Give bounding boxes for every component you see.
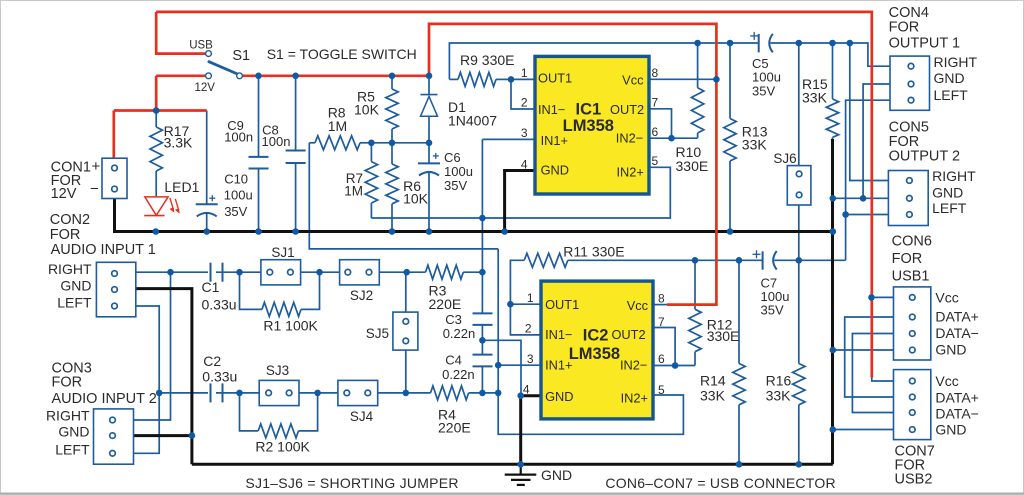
svg-text:DATA+: DATA+ [935, 390, 978, 406]
svg-text:IN2+: IN2+ [621, 390, 648, 405]
ground bus upper [115, 199, 833, 232]
svg-text:330E: 330E [676, 158, 709, 174]
wire CON3 GND stub [134, 434, 192, 437]
svg-text:R14: R14 [700, 372, 726, 388]
wire IC2 pin1/pin2 node [510, 304, 541, 335]
svg-text:6: 6 [658, 352, 665, 366]
svg-text:R2 100K: R2 100K [255, 439, 310, 455]
ground symbol [505, 464, 537, 485]
svg-text:35V: 35V [224, 204, 247, 219]
wire IC1 pin8 Vcc stub [649, 78, 716, 80]
resistor R7 1M [365, 143, 377, 218]
connector CON6 USB1 [894, 287, 931, 360]
svg-text:330E: 330E [707, 328, 740, 344]
svg-text:3: 3 [527, 352, 534, 366]
svg-text:FOR: FOR [889, 20, 920, 36]
svg-text:100n: 100n [224, 130, 253, 145]
wire USB1 Vcc stub [872, 296, 894, 298]
resistor R9 330E [449, 72, 511, 86]
capacitor C3 0.22n [473, 313, 493, 325]
LED LED1 [144, 197, 180, 216]
svg-text:100n: 100n [262, 134, 291, 149]
svg-text:CON2: CON2 [50, 212, 90, 228]
ground bus lower [192, 463, 833, 466]
svg-text:USB2: USB2 [895, 472, 933, 488]
svg-text:LEFT: LEFT [57, 295, 92, 311]
svg-text:SJ6: SJ6 [773, 151, 796, 166]
wire CON4 LEFT / CON5 LEFT riser [846, 100, 890, 260]
wire R2 leads [240, 393, 318, 431]
svg-text:7: 7 [658, 315, 665, 329]
svg-text:100u: 100u [444, 164, 473, 179]
wire bias node line R8-R5-C6 [371, 142, 429, 144]
svg-text:DATA−: DATA− [935, 325, 978, 341]
svg-text:LED1: LED1 [164, 179, 199, 195]
wire IC1 pin3 / bias column [482, 139, 535, 393]
svg-text:1M: 1M [328, 118, 347, 134]
svg-text:GND: GND [58, 424, 89, 440]
svg-text:100u: 100u [224, 188, 253, 203]
svg-text:IC1: IC1 [576, 100, 602, 118]
svg-text:10K: 10K [354, 102, 380, 118]
resistor R3 220E [426, 265, 464, 279]
svg-text:OUTPUT 1: OUTPUT 1 [889, 35, 960, 51]
diode D1 1N4007 [421, 76, 438, 143]
svg-text:2: 2 [521, 96, 528, 110]
wire output-1 line from R9/R10 node to CON4 [449, 43, 890, 79]
capacitor C5 100u electrolytic [750, 32, 773, 53]
svg-text:DATA+: DATA+ [935, 309, 978, 325]
svg-text:R9 330E: R9 330E [460, 52, 514, 68]
wire R7 node to IC1 pin5 detour [371, 167, 670, 218]
wire R8 bias line to IC2 IN1+ [309, 143, 498, 249]
svg-text:LEFT: LEFT [934, 87, 969, 103]
svg-text:35V: 35V [752, 84, 775, 99]
svg-text:SJ4: SJ4 [350, 409, 374, 424]
svg-text:C6: C6 [444, 150, 461, 165]
wire IC1 pin1/pin2 node [511, 79, 535, 109]
wire switched power rail [242, 74, 429, 77]
wire CON4 GND [863, 84, 890, 198]
svg-text:12V: 12V [195, 82, 216, 94]
resistor R12 330E [689, 260, 701, 365]
wire IC1 pin4 GND [505, 171, 535, 232]
svg-text:0.22n: 0.22n [442, 367, 475, 382]
wire USB switch feed [156, 12, 206, 54]
svg-text:C2: C2 [203, 353, 221, 369]
connector CON2 audio input 1 [96, 262, 135, 317]
resistor R11 330E [524, 253, 568, 267]
svg-text:100u: 100u [752, 70, 781, 85]
svg-text:OUT1: OUT1 [545, 297, 579, 312]
svg-text:−: − [90, 181, 99, 198]
wire USB1-USB2 DATA+ [845, 317, 894, 397]
jumper SJ6 [787, 166, 811, 205]
svg-text:IN1+: IN1+ [541, 133, 568, 148]
resistor R10 330E [691, 43, 703, 138]
svg-text:GND: GND [545, 389, 573, 404]
capacitor C9 100n [249, 76, 269, 232]
svg-text:SJ1–SJ6 = SHORTING JUMPER: SJ1–SJ6 = SHORTING JUMPER [245, 475, 458, 491]
svg-text:6: 6 [652, 125, 659, 139]
connector CON7 USB2 [894, 370, 931, 440]
svg-text:FOR: FOR [50, 227, 81, 243]
wire audio input path1 [136, 271, 483, 273]
connector CON1 12V input [102, 158, 127, 198]
svg-text:OUT2: OUT2 [611, 327, 645, 342]
svg-text:SJ2: SJ2 [350, 288, 373, 303]
svg-text:R1 100K: R1 100K [263, 318, 318, 334]
svg-text:CON6–CON7 = USB CONNECTOR: CON6–CON7 = USB CONNECTOR [605, 475, 835, 491]
resistor R13 33K [724, 43, 736, 232]
svg-text:SJ5: SJ5 [366, 326, 389, 341]
IC1 pin numbers [521, 66, 659, 172]
svg-text:IN1+: IN1+ [545, 358, 572, 373]
wire USB2 GND stub [833, 429, 894, 431]
svg-text:+: + [92, 158, 101, 175]
svg-text:2: 2 [525, 322, 532, 336]
wire inner power feed to IC Vcc pins [429, 24, 716, 305]
svg-text:220E: 220E [438, 419, 471, 435]
resistor R14 33K [733, 260, 745, 464]
wire CON3 RIGHT riser [134, 272, 171, 420]
svg-text:220E: 220E [429, 296, 462, 312]
svg-text:S1: S1 [232, 48, 250, 64]
wire CON5 RIGHT to output-1 line [850, 43, 889, 181]
svg-text:Vcc: Vcc [935, 373, 958, 389]
wire SJ5 links [405, 272, 407, 393]
svg-text:LEFT: LEFT [932, 200, 967, 216]
svg-text:33K: 33K [700, 388, 726, 404]
svg-text:1: 1 [527, 291, 534, 305]
capacitor C1 0.33u [211, 263, 223, 282]
svg-text:Vcc: Vcc [935, 289, 958, 305]
resistor R8 1M [309, 136, 371, 150]
svg-text:1M: 1M [344, 183, 363, 198]
wire IC2 pin8 stub [653, 304, 669, 306]
connector CON5 output 2 [888, 171, 928, 226]
svg-text:GND: GND [935, 342, 966, 358]
svg-text:R11 330E: R11 330E [563, 244, 624, 260]
svg-text:OUTPUT 2: OUTPUT 2 [889, 149, 960, 165]
svg-text:FOR: FOR [892, 251, 923, 267]
svg-text:GND: GND [935, 422, 966, 438]
svg-text:RIGHT: RIGHT [932, 168, 976, 184]
svg-text:LM358: LM358 [563, 117, 614, 135]
wire CON5 GND [833, 197, 889, 199]
IC2 pin numbers [523, 291, 665, 397]
svg-text:R16: R16 [766, 372, 792, 388]
svg-text:LEFT: LEFT [55, 442, 90, 458]
svg-text:RIGHT: RIGHT [46, 408, 90, 424]
wire CON1 + to LED/C10 branch [114, 111, 207, 159]
svg-text:GND: GND [541, 163, 569, 178]
svg-text:S1 = TOGGLE SWITCH: S1 = TOGGLE SWITCH [267, 46, 417, 62]
svg-text:OUT2: OUT2 [610, 102, 644, 117]
svg-text:0.33u: 0.33u [202, 296, 237, 312]
wire CON2 GND to lower bus [136, 289, 192, 465]
svg-text:SJ3: SJ3 [266, 363, 289, 378]
svg-text:Vcc: Vcc [622, 73, 644, 88]
svg-text:C1: C1 [202, 279, 220, 295]
resistor R6 10K [386, 143, 398, 232]
wire IC2 pin7-pin6 link and R12 bottom [653, 328, 695, 366]
svg-text:35V: 35V [761, 303, 784, 318]
resistor R15 33K [826, 43, 838, 140]
svg-text:OUT1: OUT1 [538, 71, 572, 86]
wire IC2 pin4 GND [521, 396, 541, 465]
svg-text:33K: 33K [802, 90, 828, 106]
svg-text:IN1−: IN1− [545, 327, 572, 342]
svg-text:7: 7 [652, 96, 659, 110]
svg-text:5: 5 [658, 383, 665, 397]
wire IC2 pin5 detour [498, 393, 683, 434]
capacitor C8 100n [286, 76, 306, 232]
wire SJ6 links and R16 column [798, 43, 800, 464]
svg-text:GND: GND [934, 70, 965, 86]
svg-text:10K: 10K [403, 191, 429, 207]
op-amp IC2 LM358 [541, 281, 653, 419]
wire 12V power rail top [156, 12, 872, 378]
svg-text:4: 4 [521, 158, 528, 172]
wire IC1 pin7-pin6 link and R10 bottom [649, 109, 698, 138]
svg-text:IN1−: IN1− [538, 102, 565, 117]
svg-text:IN2+: IN2+ [617, 165, 644, 180]
svg-text:C10: C10 [224, 171, 248, 186]
svg-text:1: 1 [521, 66, 528, 80]
svg-text:0.22n: 0.22n [443, 326, 476, 341]
svg-text:SJ1: SJ1 [271, 245, 294, 260]
toggle switch S1 [206, 51, 243, 79]
svg-text:Vcc: Vcc [627, 298, 649, 313]
jumper SJ5 [393, 312, 418, 350]
wire USB1-USB2 DATA- [852, 334, 893, 413]
svg-text:35V: 35V [444, 178, 467, 193]
svg-text:USB1: USB1 [892, 269, 930, 285]
capacitor C4 0.22n [473, 355, 493, 367]
wire R1 leads [240, 272, 320, 309]
svg-text:IN2−: IN2− [616, 130, 643, 145]
svg-text:IC2: IC2 [583, 327, 609, 345]
ground vertical right (R15 to lower bus) [831, 139, 834, 464]
jumper SJ3 [259, 380, 299, 405]
wire USB2 Vcc stub [872, 376, 894, 381]
svg-text:33K: 33K [766, 388, 792, 404]
wire R11 to output-2 line [510, 260, 845, 304]
jumper SJ4 [338, 380, 378, 405]
svg-text:1N4007: 1N4007 [448, 113, 497, 129]
svg-text:4: 4 [523, 383, 530, 397]
capacitor C7 100u electrolytic [753, 250, 777, 269]
resistor R4 220E [431, 386, 469, 400]
resistor R16 33K [793, 364, 805, 405]
svg-text:33K: 33K [742, 137, 768, 153]
connector CON3 audio input 2 [94, 409, 134, 464]
resistor R17 3.3K [150, 111, 162, 197]
resistor R5 10K [386, 76, 398, 143]
jumper SJ1 [261, 260, 301, 285]
wire audio input path2 [159, 392, 498, 394]
svg-text:DATA−: DATA− [935, 406, 978, 422]
jumper SJ2 [340, 260, 380, 285]
svg-text:GND: GND [541, 467, 572, 483]
svg-text:USB: USB [189, 40, 213, 52]
svg-text:GND: GND [60, 278, 91, 294]
svg-text:C4: C4 [445, 353, 462, 368]
svg-text:8: 8 [652, 66, 659, 80]
svg-text:RIGHT: RIGHT [934, 54, 978, 70]
svg-text:8: 8 [658, 292, 665, 306]
capacitor C6 100u electrolytic [418, 143, 440, 232]
svg-text:LM358: LM358 [569, 345, 620, 363]
wire CON2 LEFT / CON3 LEFT riser [134, 306, 160, 453]
op-amp IC1 LM358 [535, 56, 649, 194]
svg-text:GND: GND [932, 185, 963, 201]
svg-text:FOR: FOR [52, 375, 83, 391]
svg-text:5: 5 [652, 154, 659, 168]
wire 12V switch feed [156, 76, 206, 111]
svg-text:CON6: CON6 [892, 234, 932, 250]
capacitor C10 100u electrolytic [196, 111, 218, 232]
svg-text:12V: 12V [51, 186, 77, 202]
svg-text:AUDIO INPUT 1: AUDIO INPUT 1 [51, 242, 156, 258]
svg-text:AUDIO INPUT 2: AUDIO INPUT 2 [52, 391, 157, 407]
svg-text:3: 3 [521, 126, 528, 140]
svg-text:0.33u: 0.33u [202, 369, 237, 385]
svg-text:3.3K: 3.3K [164, 135, 193, 151]
wire USB1 GND stub [833, 349, 894, 351]
resistor R1 100K [262, 302, 301, 316]
wire C3-C4 node to IC2 GND pin [482, 340, 521, 395]
svg-text:RIGHT: RIGHT [48, 261, 92, 277]
capacitor C2 0.33u [211, 383, 223, 402]
svg-text:IN2−: IN2− [620, 358, 647, 373]
resistor R2 100K [258, 424, 298, 438]
connector CON4 output 1 [890, 56, 930, 110]
wire IC2 pin3 riser / mix node [498, 249, 541, 393]
